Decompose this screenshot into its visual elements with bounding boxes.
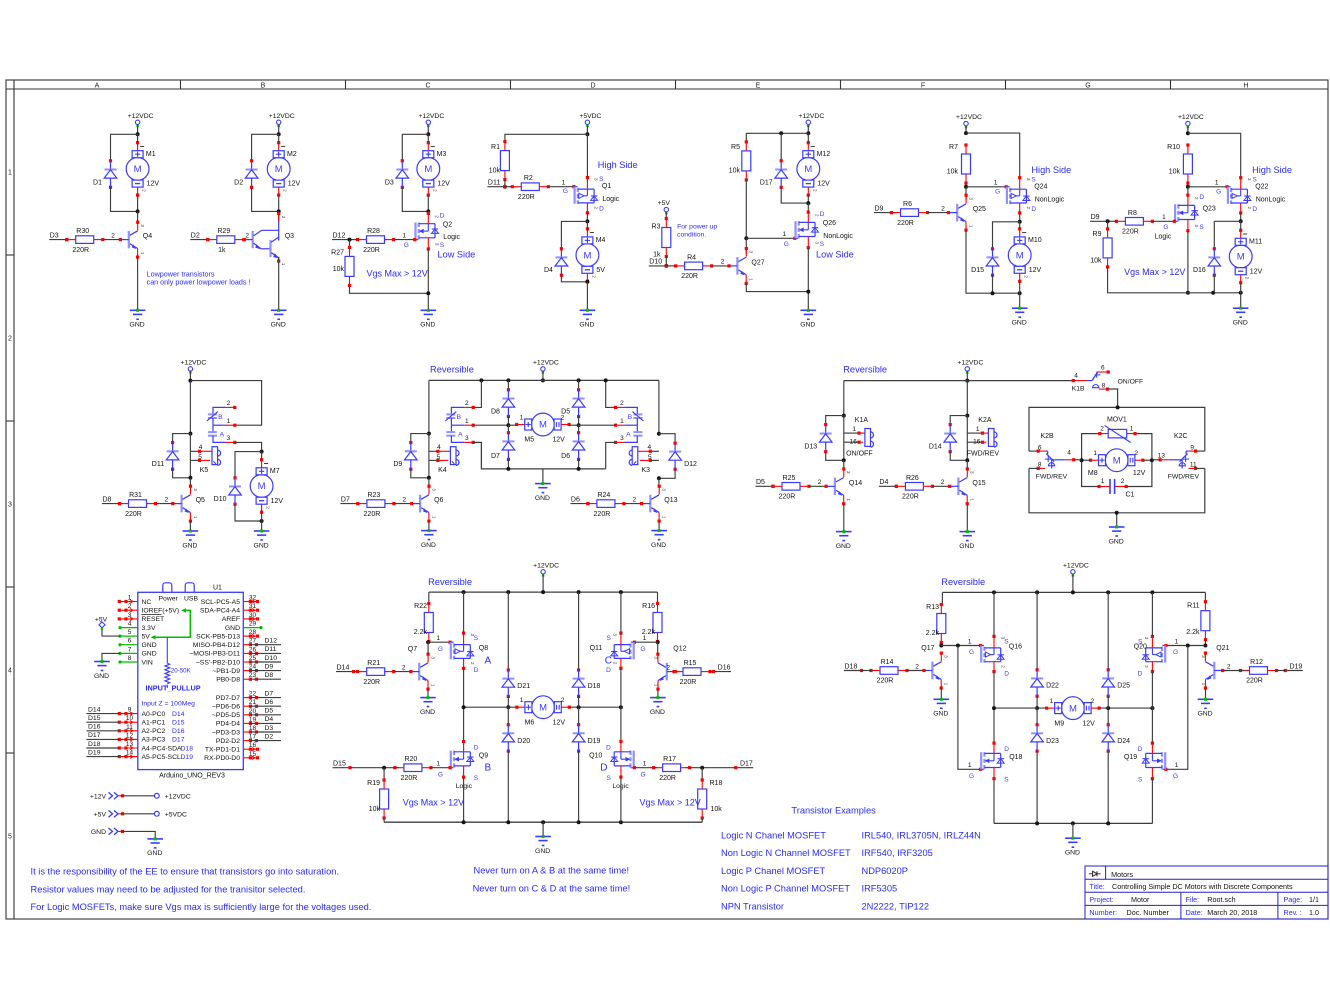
svg-text:K5: K5 [200,467,209,474]
power +12VDC supply [269,113,295,127]
svg-text:M8: M8 [1088,470,1098,477]
motor M2 12V [267,141,300,197]
transistor Q14 NPN [827,467,863,505]
svg-text:G: G [1216,188,1221,195]
svg-text:G: G [1163,224,1168,231]
node gate Q22 [1186,185,1190,189]
svg-text:SDA-PC4-A4: SDA-PC4-A4 [200,608,240,615]
svg-text:12V: 12V [437,181,450,188]
motor M6 12V [515,696,571,727]
svg-text:D8: D8 [103,496,112,503]
svg-text:Logic: Logic [602,196,619,203]
transistor P-MOSFET [611,632,635,670]
junction [992,590,996,594]
svg-text:K1B: K1B [1072,386,1085,393]
svg-text:1: 1 [1101,478,1105,485]
wire [428,434,430,478]
junction [277,132,281,136]
wire to D13 [826,416,844,425]
svg-text:K2C: K2C [1174,433,1188,440]
svg-text:R5: R5 [731,144,740,151]
capacitor C1 [1097,478,1134,498]
svg-text:S: S [1252,176,1257,183]
wire [507,459,509,469]
svg-text:K3: K3 [642,467,651,474]
diode D9 [393,441,417,471]
node D14 net label [336,664,355,673]
svg-text:Low Side: Low Side [438,250,476,260]
ground [1197,698,1213,718]
node D2 net label [190,232,209,241]
svg-text:GND: GND [650,709,665,716]
svg-text:GND: GND [142,642,157,649]
junction [619,590,623,594]
wire [1187,126,1189,133]
wire pin2 up to rail [473,380,481,407]
svg-text:4: 4 [437,444,441,451]
svg-text:D7: D7 [491,453,500,460]
junction [1186,131,1190,135]
wire [1152,459,1160,461]
svg-text:G: G [1085,83,1090,90]
svg-text:4: 4 [1067,450,1071,457]
junction [462,590,466,594]
junction [1186,291,1190,295]
title block [1085,866,1328,919]
wire R5 to gate node [745,180,747,238]
wire emitter to bottom rail [966,230,1020,293]
svg-text:D2: D2 [191,232,200,239]
junction [426,132,430,136]
junction [842,414,846,418]
node gate branch [1186,644,1190,648]
svg-text:220R: 220R [680,679,697,686]
svg-text:D21: D21 [517,683,530,690]
motor M12 12V [797,141,830,197]
svg-text:Never turn on C & D at the sam: Never turn on C & D at the same time! [473,883,631,893]
diode D3 [385,159,409,189]
transistor NPN [411,653,436,691]
svg-text:GND: GND [1012,320,1027,327]
junction [1115,511,1119,515]
transistor P-MOSFET [450,632,474,670]
svg-text:2: 2 [818,479,822,486]
svg-text:1: 1 [643,635,647,642]
junction [1106,706,1110,710]
wire to R13 [941,592,943,604]
wire gate [941,645,980,647]
wire [1019,222,1021,229]
svg-text:1: 1 [520,414,524,421]
wire [428,521,430,531]
transistor N-MOSFET [1142,742,1166,781]
wire to D12 [659,434,675,444]
wire [578,707,580,725]
wire [658,478,660,486]
svg-text:M: M [275,164,283,175]
svg-text:Q18: Q18 [1009,754,1022,761]
wire to R1 [505,134,588,141]
wire [1036,708,1038,725]
svg-text:GND: GND [1065,850,1080,857]
svg-text:D6: D6 [561,453,570,460]
wire [826,452,844,461]
wire to flyback diode D4 [561,221,587,248]
transistor Q27 NPN [729,247,765,285]
svg-text:~PB1-D9: ~PB1-D9 [212,668,240,675]
svg-text:D13: D13 [804,444,817,451]
svg-text:220R: 220R [877,678,894,685]
wire [350,767,399,769]
svg-text:M: M [1016,250,1024,261]
svg-text:GND: GND [147,850,162,857]
power +5V supply [658,200,671,214]
wire to ground [1240,283,1242,309]
relay coil K5 [198,444,221,474]
svg-text:D: D [1138,670,1143,677]
wire emitter to ground [657,689,659,698]
resistor R18 10k [698,778,723,819]
node R19 tap [382,766,386,770]
svg-text:D5: D5 [756,479,765,486]
wire [701,818,703,822]
svg-text:TX-PD1-D1: TX-PD1-D1 [205,747,240,754]
svg-text:G: G [640,771,645,778]
transistor Q26 N-MOSFET NonLogic [782,211,853,250]
wire top rail [429,379,659,381]
svg-text:GND: GND [579,322,594,329]
junction [506,423,510,427]
svg-text:1: 1 [8,170,12,177]
wire [137,125,139,135]
power +12VDC supply [956,114,982,128]
wire [278,134,280,142]
svg-text:D5: D5 [265,708,274,715]
svg-text:NonLogic: NonLogic [823,233,853,240]
wire [658,521,660,531]
svg-text:D14: D14 [172,711,185,718]
frame column letters [95,83,1249,90]
wire base [928,212,949,214]
wire [966,460,968,469]
svg-text:R25: R25 [783,475,796,482]
svg-text:~MOSI-PB3-D11: ~MOSI-PB3-D11 [189,651,240,658]
varistor MOV1 [1098,416,1136,442]
wire to ground [1116,513,1118,527]
junction [506,590,510,594]
wire gate [548,186,574,188]
svg-text:220R: 220R [1122,229,1139,236]
svg-text:1.0: 1.0 [1309,908,1319,917]
svg-text:1: 1 [620,418,624,425]
wire [578,425,580,433]
node D8 net label [102,496,121,505]
svg-text:D16: D16 [172,728,185,735]
junction [1035,706,1039,710]
svg-text:E: E [756,83,761,90]
svg-text:G: G [563,188,568,195]
node gate branch [956,644,960,648]
svg-text:D15: D15 [971,267,984,274]
svg-text:FWD/REV: FWD/REV [967,451,1000,458]
motor M7 12V [250,458,283,514]
resistor R1 10k [489,140,510,181]
wire supply to contact pin1 [190,381,261,426]
wire [578,696,580,707]
svg-text:D: D [1004,670,1009,677]
junction [1035,590,1039,594]
wire pin3 to bottom rail [473,442,606,469]
svg-text:2: 2 [165,496,169,503]
svg-text:G: G [1173,649,1178,656]
svg-text:+12VDC: +12VDC [269,113,295,120]
svg-text:4: 4 [1074,373,1078,380]
junction [506,378,510,382]
svg-text:GND: GND [182,542,197,549]
junction [965,414,969,418]
motor M11 12V [1229,229,1262,285]
transistor Q22 P-MOSFET NonLogic [1215,176,1286,214]
wire left main [428,380,430,433]
svg-text:A: A [220,431,225,438]
wire [507,425,509,433]
wire [428,478,430,486]
wire [1240,221,1242,230]
svg-text:Q16: Q16 [1009,643,1022,650]
svg-text:D: D [1004,746,1009,753]
svg-text:For power up: For power up [677,224,717,231]
svg-text:29: 29 [249,621,257,628]
junction [188,379,192,383]
svg-text:GND: GND [651,542,666,549]
svg-text:B: B [628,414,633,421]
wire to flyback diode [111,134,138,161]
svg-text:+12VDC: +12VDC [180,359,206,366]
wire base [1223,670,1245,672]
svg-text:Number:: Number: [1089,908,1117,917]
relay coil K1A [846,417,873,458]
svg-text:K4: K4 [438,467,447,474]
svg-text:Q4: Q4 [143,233,152,240]
svg-text:220R: 220R [364,511,381,518]
svg-text:Project:: Project: [1089,895,1113,904]
transistor Q25 NPN [949,194,986,232]
svg-text:R1: R1 [491,144,500,151]
wire to D11 [173,434,191,443]
connector GND [91,828,155,839]
svg-text:C1: C1 [1126,492,1135,499]
resistor R16 2.2k [642,602,662,643]
wire [427,125,429,135]
wire top rail [942,591,1205,593]
svg-text:3.3V: 3.3V [142,625,156,632]
wire [807,125,809,134]
wire base [712,265,729,267]
transistor N-MOSFET [611,740,635,779]
junction [964,131,968,135]
svg-text:12V: 12V [553,719,566,726]
junction [577,423,581,427]
wire rail to R5 [746,133,808,142]
svg-text:M: M [1069,703,1077,714]
wire phase to motor [994,707,1047,709]
wire [950,452,967,461]
junction [260,519,264,523]
svg-text:ON/OFF: ON/OFF [1118,378,1144,385]
svg-text:16: 16 [973,438,981,445]
svg-text:Motor: Motor [1131,895,1150,904]
wire [586,125,588,135]
wire to R11 [1204,592,1206,601]
svg-text:File:: File: [1186,895,1200,904]
wire bottom rail [994,822,1152,824]
svg-text:5: 5 [198,454,202,461]
svg-text:G: G [969,649,974,656]
wire to center ground [542,469,544,484]
wire gate [1152,220,1174,222]
ground [1233,307,1249,327]
svg-text:K1A: K1A [855,417,869,424]
diode D6 [561,431,585,461]
svg-text:1: 1 [465,418,469,425]
svg-text:1k: 1k [218,247,226,254]
svg-text:GND: GND [1109,538,1124,545]
svg-text:B: B [218,414,223,421]
wire [1187,183,1189,187]
diode D16 [1193,247,1221,277]
svg-text:2: 2 [465,400,469,407]
wire [1107,751,1109,823]
wire to D10 [235,452,262,478]
svg-text:2: 2 [915,663,919,670]
wire switch to box [1108,389,1118,407]
wire gate [634,641,657,643]
wire [657,641,659,644]
junction [1239,291,1243,295]
wire pin2 up to rail [606,380,616,407]
svg-text:220R: 220R [594,511,611,518]
svg-text:R24: R24 [597,492,610,499]
node D9 net label [874,205,893,214]
transistor Q23 N-MOSFET Logic [1162,194,1204,233]
relay contact switch [1037,450,1055,471]
svg-text:10k: 10k [729,168,741,175]
svg-text:+12VDC: +12VDC [165,793,191,800]
svg-text:M: M [539,702,547,713]
svg-text:B: B [457,414,462,421]
svg-text:10k: 10k [333,266,345,273]
diode D11 [152,441,179,471]
svg-text:D: D [590,83,595,90]
diode D19 [572,723,600,753]
wire [427,642,429,654]
svg-text:Q14: Q14 [849,480,862,487]
wire box outer rect [1029,407,1205,451]
svg-text:12V: 12V [817,181,830,188]
svg-text:R27: R27 [331,250,344,257]
svg-text:4: 4 [128,621,132,628]
junction [506,820,510,824]
diode D4 [544,247,568,277]
svg-text:Q7: Q7 [408,646,417,653]
svg-text:Q22: Q22 [1255,183,1268,190]
svg-text:D: D [1138,746,1143,753]
svg-text:D4: D4 [265,716,274,723]
wire [965,126,967,133]
svg-text:4: 4 [647,444,651,451]
svg-text:6: 6 [1101,365,1105,372]
wire motor to phase [1099,707,1152,709]
svg-text:M10: M10 [1028,237,1042,244]
wire to Q27 collector [745,238,747,253]
svg-text:Q24: Q24 [1034,183,1047,190]
svg-text:D: D [474,745,479,752]
wire diode to motor node [252,187,279,211]
svg-text:2: 2 [245,232,249,239]
wire source down [1187,231,1189,293]
junction [806,131,810,135]
svg-text:D23: D23 [1046,738,1059,745]
relay contact A [614,418,643,444]
svg-text:R17: R17 [663,756,676,763]
svg-text:Motors: Motors [1111,870,1133,879]
wire [261,452,263,460]
node Q17 collector [939,644,943,648]
resistor R28 220R [356,228,395,254]
transistor Q5 NPN [173,485,205,523]
svg-text:Vgs Max > 12V: Vgs Max > 12V [403,798,464,808]
wire [507,380,509,389]
transistor NPN [924,652,949,690]
svg-text:Logic N Chanel MOSFET: Logic N Chanel MOSFET [721,831,826,841]
wire to flyback diode D3 [402,134,428,161]
svg-text:GND: GND [836,543,851,550]
svg-text:B: B [485,763,492,774]
svg-text:D: D [606,667,611,674]
svg-text:2: 2 [941,205,945,212]
junction [479,378,483,382]
wire emitter to ground [427,689,429,698]
wire gate branch vertical [958,646,981,770]
relay contact switch [1086,370,1109,390]
svg-text:A3-PC3: A3-PC3 [142,737,166,744]
node motor-drain junction [426,209,430,213]
wire to diode D17 [780,133,782,161]
svg-text:D6: D6 [265,699,274,706]
svg-text:GND: GND [142,651,157,658]
wire base [156,503,173,505]
svg-text:RX-PD0-D0: RX-PD0-D0 [204,755,240,762]
resistor R9 10k [1090,227,1112,268]
resistor R23 220R [356,492,395,518]
junction [1106,821,1110,825]
wire [508,424,516,426]
svg-text:can only power lowpower loads: can only power lowpower loads ! [147,278,251,287]
title block texts [1089,870,1319,917]
wire emitter to ground [278,257,280,310]
svg-text:D9: D9 [265,663,274,670]
power +12VDC supply [957,359,983,373]
wire [1036,751,1038,823]
svg-text:Q1: Q1 [602,183,611,190]
junction [806,290,810,294]
svg-text:Q11: Q11 [590,645,603,652]
svg-text:Power: Power [159,596,179,603]
svg-text:2: 2 [227,400,231,407]
svg-text:2: 2 [721,259,725,266]
node R18 tap [700,766,704,770]
wire [542,371,544,380]
